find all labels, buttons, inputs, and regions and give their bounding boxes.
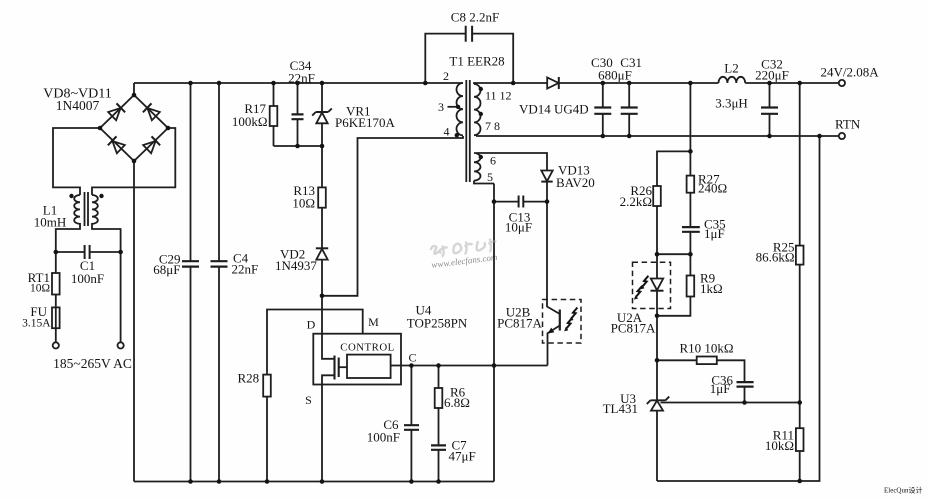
wire: C7 to bus <box>438 450 440 482</box>
junction dot T1 pin4 <box>455 133 459 137</box>
wire: T1 pin5 lead <box>474 181 494 184</box>
svg-text:100nF: 100nF <box>71 271 104 286</box>
svg-text:R10 10kΩ: R10 10kΩ <box>680 341 734 356</box>
junction dots on secondary top line <box>511 81 516 86</box>
svg-text:D: D <box>307 318 316 332</box>
wire: C31 branch upper <box>628 83 630 107</box>
inductor L1 left winding <box>74 195 80 224</box>
terminal: AC input right <box>118 342 124 348</box>
wire: output line after L2 to 24V terminal <box>745 82 839 84</box>
optocoupler U2B PC817A dashed box <box>543 300 582 344</box>
wire: ref node to R11 <box>799 403 801 429</box>
wire: R6 to C7 <box>438 408 440 445</box>
wire: bridge left vertex to L1 left winding <box>53 128 100 195</box>
svg-text:3.15A: 3.15A <box>22 318 51 330</box>
wire: secondary output top line <box>474 83 719 84</box>
light arrows into U2B <box>564 308 577 332</box>
wire: C32 branch upper <box>769 83 771 107</box>
wire: bridge right vertex to L1 right winding <box>92 128 175 195</box>
resistor R6 <box>435 388 443 408</box>
wire: R28 bottom to bus <box>266 397 268 482</box>
capacitor C32 plates <box>761 108 778 114</box>
watermark center <box>429 238 499 270</box>
diode VD2 1N4937 <box>316 249 327 260</box>
svg-text:RTN: RTN <box>835 117 861 132</box>
wire: C6 branch upper <box>410 366 412 426</box>
junction dots C13 line <box>492 199 497 204</box>
wire: R10 left lead <box>657 359 697 361</box>
svg-text:10Ω: 10Ω <box>292 196 315 211</box>
resistor R9 <box>687 276 695 297</box>
diode VD10 (lower-left arm) <box>108 136 125 153</box>
svg-text:L2: L2 <box>724 61 738 76</box>
svg-text:2.2kΩ: 2.2kΩ <box>620 194 652 209</box>
bridge rectifier VD8~VD11 diamond <box>100 95 168 161</box>
svg-text:CONTROL: CONTROL <box>340 342 395 354</box>
svg-text:TL431: TL431 <box>603 401 638 416</box>
wire: R26 bottom to LED node <box>656 206 658 254</box>
transformer T1 bias winding pins 6-5 <box>474 153 481 181</box>
diode VD11 (lower-right arm) <box>143 136 160 153</box>
svg-text:7 8: 7 8 <box>485 119 500 133</box>
capacitor C34 plates <box>292 114 304 119</box>
junction dots feedback network <box>688 149 693 154</box>
svg-text:P6KE170A: P6KE170A <box>335 115 396 130</box>
diode VD9 (upper-right arm) <box>143 103 160 120</box>
svg-text:100nF: 100nF <box>367 430 400 445</box>
capacitor C29 plates <box>182 261 199 266</box>
wire: T1 bias winding top lead to VD13 <box>476 153 547 170</box>
L1 core lines <box>85 192 89 226</box>
wire: LED cathode node down to R10 node and TL431 <box>656 316 658 401</box>
wire: VD2 anode down to drain node and U4 D pin <box>321 260 323 334</box>
wire: C1 right lead <box>90 251 121 253</box>
junction dot R11 bottom <box>797 479 802 484</box>
svg-text:10kΩ: 10kΩ <box>765 438 794 453</box>
capacitor C36 plates <box>737 382 754 387</box>
svg-text:3.3μH: 3.3μH <box>715 96 748 111</box>
resistor R10 <box>697 357 717 365</box>
svg-text:S: S <box>305 393 312 407</box>
svg-text:1μF: 1μF <box>710 381 731 396</box>
resistor R25 <box>796 246 804 265</box>
TVS diode VR1 P6KE170A <box>316 113 327 124</box>
svg-text:6.8Ω: 6.8Ω <box>444 395 470 410</box>
junction dots on top rail <box>188 81 193 86</box>
wire: R28 top to U4 M pin <box>267 310 363 375</box>
wire: bridge top stem <box>133 83 135 95</box>
wire: R6 top lead <box>438 366 440 389</box>
resistor R13 <box>318 187 326 207</box>
shunt regulator U3 TL431 <box>651 401 663 411</box>
svg-text:T1 EER28: T1 EER28 <box>449 54 504 69</box>
resistor R11 <box>796 428 804 451</box>
wire: R17 top lead <box>273 83 275 106</box>
resistor R26 <box>653 186 661 206</box>
resistor RT1 <box>52 273 60 295</box>
wire: clamp bottom connector <box>274 145 323 147</box>
svg-text:10Ω: 10Ω <box>30 283 50 295</box>
wire: C pin line <box>401 365 548 367</box>
wire: LED anode lead <box>656 254 658 278</box>
resistor R27 <box>687 176 695 193</box>
svg-text:VD14 UG4D: VD14 UG4D <box>519 102 589 117</box>
transistor: U2B phototransistor <box>547 300 560 315</box>
svg-text:4: 4 <box>444 125 450 139</box>
wire: VD13 cathode down to U2B collector <box>546 182 548 300</box>
svg-text:ElecQun设计: ElecQun设计 <box>884 486 923 495</box>
wire: C1 left lead <box>56 251 85 253</box>
wire: primary ground bus <box>134 481 494 483</box>
diode VD13 BAV20 <box>541 171 552 182</box>
junction dots C pin line <box>409 363 414 368</box>
transformer T1 primary winding pins 2-4 <box>457 83 463 135</box>
transformer T1 secondary winding pins 11/12-7/8 <box>474 84 481 135</box>
svg-text:240Ω: 240Ω <box>698 181 727 196</box>
diode VD8 (upper-left arm) <box>108 103 125 120</box>
wire: pin5 node down to C junction <box>493 184 495 482</box>
junction dot T1 pin3 tap <box>456 105 460 109</box>
svg-text:680μF: 680μF <box>598 68 632 83</box>
wire: TL431 anode to bottom <box>656 411 658 481</box>
resistor R28 <box>263 375 271 397</box>
svg-text:M: M <box>368 315 379 329</box>
svg-text:5: 5 <box>487 170 493 184</box>
wire: C4 branch upper <box>218 83 220 261</box>
light arrows out of U2A <box>634 276 649 300</box>
wire: RT1 to FU <box>55 295 57 308</box>
fuse FU <box>55 307 57 328</box>
svg-text:R28: R28 <box>238 371 260 386</box>
wire: clamp to R13 <box>321 146 323 187</box>
capacitor C7 plates <box>431 445 446 449</box>
wire: C13 right lead <box>523 201 547 203</box>
terminal: AC input left <box>53 342 59 348</box>
svg-text:220μF: 220μF <box>755 68 789 83</box>
svg-text:PC817A: PC817A <box>611 320 656 335</box>
svg-text:TOP258PN: TOP258PN <box>407 316 468 331</box>
svg-text:1kΩ: 1kΩ <box>700 281 723 296</box>
wire: C1 node down to RT1 <box>55 252 57 273</box>
wire: R27 top lead <box>689 151 691 175</box>
svg-text:10μF: 10μF <box>505 220 532 235</box>
wire: LED node connector <box>657 253 690 255</box>
wire: C36 bottom lead <box>744 387 746 403</box>
junction dot at drain node <box>320 294 325 299</box>
svg-text:47μF: 47μF <box>449 449 476 464</box>
wire: C4 branch lower <box>218 267 220 482</box>
svg-text:1N4937: 1N4937 <box>275 258 317 273</box>
transistor: U4 internal MOSFET <box>322 334 335 359</box>
wire: C32 branch lower <box>769 114 771 136</box>
wire: L1 left winding bottom to C1 node <box>56 223 80 252</box>
junction dots at bridge vertices <box>132 93 137 98</box>
capacitor C4 plates <box>211 261 228 266</box>
svg-text:24V/2.08A: 24V/2.08A <box>821 65 880 80</box>
capacitor C1 plates <box>85 245 90 259</box>
wire: rectified DC+ top rail <box>134 82 463 84</box>
wire: U4 S pin to bus <box>321 385 323 482</box>
svg-text:PC817A: PC817A <box>497 316 542 331</box>
svg-text:86.6kΩ: 86.6kΩ <box>756 250 795 265</box>
junction dots on clamp connector <box>295 144 300 149</box>
svg-text:6: 6 <box>490 154 496 168</box>
wire: R25 bottom to ref node <box>799 265 801 403</box>
capacitor C35 plates <box>682 227 700 232</box>
wire: C6 branch lower <box>410 430 412 482</box>
junction dots C1 node <box>54 250 59 255</box>
wire: C29 branch lower <box>190 267 192 482</box>
wire: R25 top from +24V <box>799 83 801 246</box>
svg-text:C8 2.2nF: C8 2.2nF <box>451 10 499 25</box>
wire: feedback tap from +24V node down <box>689 83 691 151</box>
optocoupler U2A PC817A dashed box <box>633 262 671 308</box>
wire: C29 branch upper <box>190 83 192 261</box>
wire: C13 left lead <box>494 201 519 203</box>
junction dots RTN line <box>601 134 606 139</box>
svg-text:10mH: 10mH <box>34 215 67 230</box>
svg-text:BAV20: BAV20 <box>556 175 595 190</box>
wire: C30 branch upper <box>602 83 604 107</box>
svg-text:100kΩ: 100kΩ <box>232 114 268 129</box>
svg-text:1N4007: 1N4007 <box>56 98 100 113</box>
svg-text:11 12: 11 12 <box>485 89 512 103</box>
wire: R27 to C35 <box>689 193 691 227</box>
wire: L1 right winding bottom to C1 node <box>92 223 121 252</box>
wire: T1 pin4 to drain node <box>322 136 463 296</box>
wire: C31 branch lower <box>628 114 630 136</box>
svg-text:68μF: 68μF <box>153 262 180 277</box>
wire: R11 bottom <box>799 451 801 481</box>
wire: LED cathode lead <box>656 291 658 316</box>
wire: C34 top lead <box>297 83 299 114</box>
terminal: RTN output <box>839 133 845 139</box>
svg-text:C: C <box>408 351 416 365</box>
U4 internal control block box <box>347 355 391 378</box>
wire: VR1 top lead <box>321 83 323 112</box>
wire: C34 bottom lead <box>297 119 299 146</box>
inductor L2 <box>719 77 746 83</box>
wire: U4 C pin exit <box>391 365 401 367</box>
capacitor C30 plates <box>594 108 611 114</box>
wire: C35 bottom lead <box>689 232 691 254</box>
resistor R17 <box>270 106 278 126</box>
inductor L1 right winding <box>92 195 98 224</box>
diode: U2A LED <box>651 279 663 291</box>
wire: right AC terminal riser <box>120 252 122 342</box>
wire: R9 top lead <box>689 254 691 275</box>
wire: branch to R26 <box>657 151 690 186</box>
svg-text:2: 2 <box>443 69 449 83</box>
wire: R9 bottom to LED cathode node <box>657 297 690 316</box>
capacitor C6 plates <box>404 425 419 430</box>
wire: TL431 ref line to divider <box>661 402 800 404</box>
svg-text:22nF: 22nF <box>232 262 259 277</box>
capacitor C31 plates <box>621 108 638 114</box>
wire: R10 right lead to C36 <box>717 360 745 382</box>
diode VD14 UG4D <box>547 77 559 89</box>
terminal: 24V/2.08A output <box>839 80 845 86</box>
junction dots primary bus <box>188 479 193 484</box>
wire: C30 branch lower <box>602 114 604 136</box>
wire: secondary bottom return <box>657 136 820 481</box>
phase dots T1 secondary windings <box>479 87 483 91</box>
svg-text:3: 3 <box>438 100 444 114</box>
capacitor C13 plates <box>519 196 524 208</box>
wire: VR1 bottom lead <box>321 123 323 146</box>
op-amp U4 TOP258PN outline box <box>313 334 401 385</box>
svg-text:1μF: 1μF <box>704 226 725 241</box>
phase dots L1 <box>69 194 73 198</box>
wire: T1 pin3 stub <box>448 106 460 108</box>
wire: RTN return line <box>476 135 839 137</box>
svg-text:185~265V AC: 185~265V AC <box>53 356 132 371</box>
wire: FU to left AC terminal <box>55 328 57 342</box>
capacitor C8 with bridging wire <box>425 34 465 83</box>
transformer T1 core <box>466 80 470 182</box>
wire: R17 bottom lead <box>273 126 275 146</box>
wire: R13 to VD2 <box>321 208 323 249</box>
wire: bridge bottom vertex to primary ground bus <box>133 161 135 482</box>
svg-text:22nF: 22nF <box>288 71 315 86</box>
